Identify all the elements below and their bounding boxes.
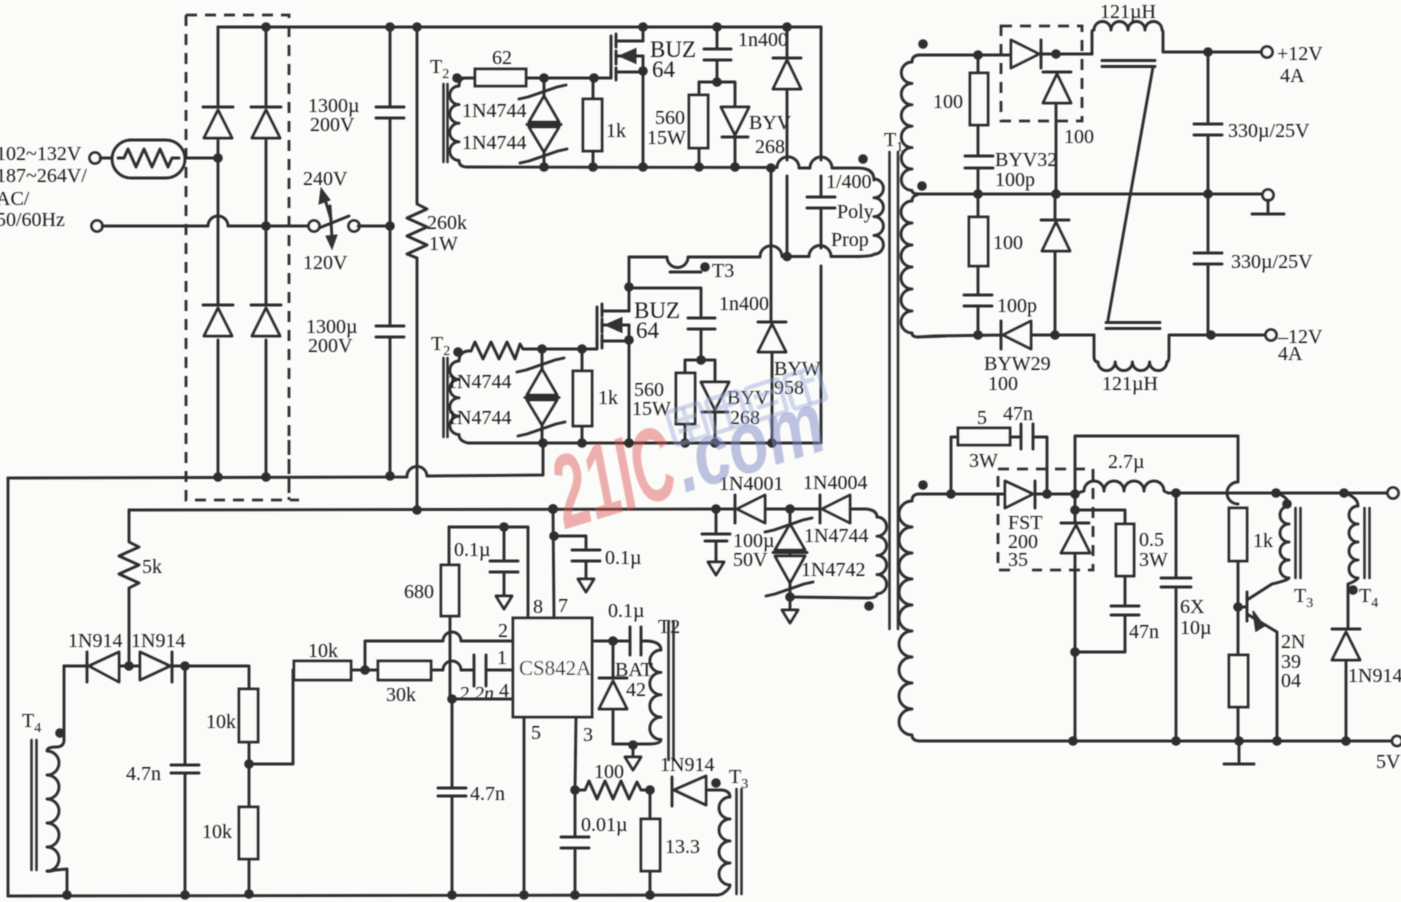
svg-text:BYV: BYV — [749, 112, 792, 134]
svg-text:1N4742: 1N4742 — [801, 559, 865, 581]
node lower rail dots — [538, 438, 777, 448]
svg-text:T3: T3 — [712, 260, 734, 282]
svg-text:T4: T4 — [22, 710, 41, 736]
wire BUZ64 lower drain up — [624, 257, 634, 311]
svg-text:0.1µ: 0.1µ — [454, 539, 491, 561]
node snubber tap dot upper — [973, 50, 983, 60]
svg-text:3W: 3W — [969, 450, 998, 472]
svg-text:T3: T3 — [729, 766, 748, 792]
svg-text:T2: T2 — [431, 333, 450, 359]
svg-text:1N914: 1N914 — [68, 630, 122, 652]
capacitor 1n400 lower — [629, 288, 769, 360]
svg-text:4.7n: 4.7n — [126, 763, 161, 785]
node dashed box BYV32 — [1001, 26, 1082, 121]
terminal 5V return output — [1376, 736, 1401, 773]
resistor 0.5 3W — [1075, 510, 1168, 606]
diode bridge lower-right — [251, 305, 281, 336]
svg-text:680: 680 — [404, 581, 434, 603]
node rectifier junction dot upper — [1051, 49, 1061, 59]
node watermark chinese glyph blocks — [666, 367, 826, 445]
node T1 primary polarity dot — [858, 154, 868, 164]
svg-text:30k: 30k — [386, 684, 416, 706]
wire 5V return rail — [920, 740, 1392, 743]
node T3 right polarity dot — [1282, 499, 1292, 509]
diode BYW29 — [935, 321, 1094, 395]
wire pin3 current sense — [570, 717, 580, 795]
svg-text:47n: 47n — [1129, 621, 1159, 643]
diode 1N914 right — [129, 630, 185, 682]
svg-text:10k: 10k — [206, 711, 236, 733]
node dashed box FST — [998, 469, 1093, 570]
resistor 560 15W lower — [632, 373, 695, 444]
svg-text:42: 42 — [626, 679, 646, 701]
terminal 5V positive output — [1388, 488, 1399, 499]
svg-text:CS842A: CS842A — [519, 656, 592, 680]
svg-text:10k: 10k — [202, 821, 232, 843]
capacitor 100p snubber lower — [964, 295, 1037, 335]
wire BUZ64 source down — [638, 56, 648, 167]
node +12V filter dot — [1203, 47, 1213, 57]
svg-text:1k: 1k — [606, 120, 626, 142]
transformer T3 sense winding — [718, 766, 748, 895]
node gate junction dots upper — [539, 73, 599, 83]
transformer T4 feedback winding right — [1344, 493, 1378, 629]
svg-text:62: 62 — [492, 47, 512, 69]
resistor 10k upper vertical — [206, 689, 258, 764]
svg-text:50V: 50V — [733, 549, 768, 571]
svg-text:200V: 200V — [308, 335, 353, 357]
svg-text:5: 5 — [531, 722, 541, 744]
transformer T2 upper drive winding — [430, 56, 467, 167]
transformer T1 12V upper secondary — [901, 55, 920, 194]
svg-text:102~132V: 102~132V — [0, 143, 82, 165]
node bridge input junction dot — [213, 153, 223, 163]
svg-text:5: 5 — [977, 407, 987, 429]
capacitor 0.1u on Vcc — [554, 536, 642, 579]
svg-text:4.7n: 4.7n — [470, 783, 505, 805]
node junction neutral to right bridge column — [261, 221, 271, 231]
svg-text:13.3: 13.3 — [665, 836, 700, 858]
svg-text:1W: 1W — [429, 233, 458, 255]
svg-text:330µ/25V: 330µ/25V — [1228, 120, 1310, 142]
svg-text:AC/: AC/ — [0, 188, 30, 210]
svg-text:0.1µ: 0.1µ — [608, 600, 645, 622]
node aux winding polarity dot — [864, 601, 874, 611]
zener pair 1N4744 upper cell — [462, 78, 567, 167]
transformer T2 drive primary — [648, 616, 680, 760]
svg-text:35: 35 — [1008, 549, 1028, 571]
resistor 100 snubber upper — [933, 55, 988, 156]
resistor gate zigzag lower — [468, 342, 542, 359]
node T4 right polarity dot — [1348, 585, 1358, 595]
capacitor 1300u 200V top — [308, 27, 404, 226]
svg-text:200V: 200V — [310, 114, 355, 136]
node upper rail dots — [539, 162, 776, 173]
resistor 13.3 — [641, 790, 700, 895]
svg-text:BAT: BAT — [615, 659, 653, 681]
wire 5V rectifier line — [919, 493, 1005, 496]
svg-text:64: 64 — [652, 57, 676, 82]
svg-text:7: 7 — [558, 595, 568, 617]
svg-text:560: 560 — [655, 107, 685, 129]
svg-text:100p: 100p — [997, 295, 1037, 317]
svg-text:1n400: 1n400 — [719, 293, 769, 315]
capacitor 0.1u on Vref — [454, 527, 518, 596]
wire damper to rail — [1074, 652, 1077, 741]
inductor 121uH upper — [1092, 1, 1262, 54]
resistor 1k feedback — [1229, 508, 1273, 607]
wire pin7 Vcc — [549, 509, 559, 618]
svg-text:8: 8 — [533, 596, 543, 618]
resistor 5k — [119, 510, 162, 666]
resistor 1k lower cell — [573, 349, 618, 444]
transformer T1 12V lower secondary — [901, 195, 918, 337]
svg-text:1N4744: 1N4744 — [447, 371, 511, 393]
svg-text:1N914: 1N914 — [660, 754, 714, 776]
capacitor 330u 25V lower — [1194, 194, 1313, 335]
wire left bridge column — [217, 27, 220, 476]
wire switch to cap midpoint — [358, 225, 390, 228]
node dashed box bridge rectifier — [186, 15, 299, 500]
svg-text:T1: T1 — [884, 129, 903, 155]
node center tap dots — [973, 189, 1213, 199]
resistor 5 3W — [951, 407, 1021, 494]
svg-text:3W: 3W — [1139, 549, 1168, 571]
transformer T1 primary winding — [858, 179, 883, 257]
terminal AC line input — [90, 153, 101, 164]
wire pin1 comp with 2.2n — [431, 655, 513, 705]
node 12V lower polarity dot — [917, 181, 927, 191]
svg-text:1N4744: 1N4744 — [462, 132, 526, 154]
node top rail dots — [261, 22, 792, 32]
node sense node dot — [645, 785, 655, 795]
diode shunt lower — [1041, 194, 1070, 335]
svg-text:10µ: 10µ — [1180, 617, 1212, 639]
diode bridge upper-right — [251, 107, 281, 138]
diode FST2035 — [1005, 481, 1075, 571]
svg-text:240V: 240V — [303, 168, 348, 190]
capacitor 0.01u — [561, 790, 628, 895]
wire bottom ground rail — [8, 895, 718, 896]
resistor 10k lower vertical — [202, 764, 258, 894]
inductor 2.7uH output — [1075, 451, 1388, 494]
node -12V rail dots — [1050, 330, 1216, 340]
svg-text:100: 100 — [933, 91, 963, 113]
svg-text:1N4744: 1N4744 — [462, 100, 526, 122]
svg-text:+12V: +12V — [1277, 43, 1323, 65]
inductor 121uH lower — [1094, 335, 1266, 395]
svg-text:121µH: 121µH — [1102, 373, 1158, 395]
wire upper cell source rail — [467, 157, 874, 180]
node RC tap dot — [946, 489, 956, 499]
wire gate node lower — [542, 340, 597, 349]
svg-text:0.1µ: 0.1µ — [605, 547, 642, 569]
svg-text:T3: T3 — [1294, 585, 1313, 611]
zener pair 1N4744 1N4742 — [765, 509, 868, 597]
svg-text:100p: 100p — [995, 169, 1035, 191]
resistor 30k — [365, 661, 431, 706]
svg-text:100: 100 — [594, 761, 624, 783]
wire -12V line left part — [918, 336, 945, 337]
diode 1N4001 — [719, 473, 820, 523]
svg-text:3: 3 — [583, 724, 593, 746]
node 5V rail dots — [1171, 488, 1349, 498]
svg-text:BYV32: BYV32 — [995, 149, 1057, 171]
node 5V return dots — [1068, 736, 1351, 746]
svg-text:15W: 15W — [647, 127, 686, 149]
svg-text:2N: 2N — [1281, 631, 1305, 653]
wire pin5 ground — [523, 717, 526, 895]
svg-text:5V: 5V — [1376, 751, 1401, 773]
capacitor 6X 10u — [1161, 493, 1212, 741]
node T2 lower polarity dot — [453, 347, 463, 357]
diode BYW958 — [758, 168, 821, 444]
svg-text:T2: T2 — [430, 56, 449, 82]
svg-text:6X: 6X — [1180, 596, 1205, 618]
node 5V winding polarity dot — [918, 480, 928, 490]
terminal ground output — [1252, 190, 1284, 215]
node FST output dots — [1042, 489, 1080, 515]
resistor emitter bias — [1229, 607, 1248, 741]
resistor 260k 1W — [407, 27, 467, 510]
capacitor 100u 50V — [702, 509, 775, 571]
svg-text:47n: 47n — [1003, 403, 1033, 425]
svg-text:2: 2 — [498, 620, 508, 642]
resistor 680 — [404, 527, 459, 699]
svg-text:Poly: Poly — [837, 201, 874, 223]
svg-text:T4: T4 — [1359, 585, 1378, 611]
node aux rectifier dot — [785, 504, 795, 514]
svg-text:10k: 10k — [308, 640, 338, 662]
capacitor 330u 25V upper — [1194, 52, 1310, 194]
terminal -12V output — [1266, 326, 1324, 365]
capacitor 1300u 200V bottom — [306, 226, 404, 475]
diode bridge lower-left — [203, 305, 233, 336]
transformer T1 core — [884, 129, 903, 629]
diode clamp upper tall — [773, 27, 801, 256]
node T2 polarity dot — [452, 73, 462, 83]
ground arrow below 0.1u Vcc — [578, 579, 594, 592]
diode BAT42 — [599, 641, 653, 744]
wire gate node upper — [544, 73, 611, 78]
wire drain loop line with T3 current transformer — [629, 246, 858, 268]
svg-text:187~264V/: 187~264V/ — [0, 165, 87, 187]
wire 12V upper output line — [920, 54, 1009, 57]
svg-text:100: 100 — [993, 232, 1023, 254]
svg-text:1N4744: 1N4744 — [447, 407, 511, 429]
node feedback node dot — [360, 665, 370, 675]
diode BYV32 shunt — [1043, 72, 1094, 194]
diode 1N4004 — [803, 472, 867, 523]
node T4 polarity dot — [55, 728, 65, 738]
diode BYV32 series — [1011, 40, 1092, 68]
svg-text:64: 64 — [636, 318, 660, 343]
svg-text:260k: 260k — [427, 212, 467, 234]
resistor 10k horizontal — [294, 640, 365, 680]
transistor BUZ64 lower MOSFET — [597, 298, 680, 348]
wire left edge bus down — [7, 478, 10, 896]
transformer T2 lower drive winding — [431, 333, 468, 443]
diode 1N914 sense — [660, 754, 722, 806]
ground arrow below T2 return — [625, 745, 641, 770]
thermistor RT — [112, 140, 185, 178]
node 12V upper polarity dot — [918, 39, 928, 49]
wire center tap ground rail — [919, 193, 1262, 196]
wire T2 primary return — [613, 740, 648, 750]
zener pair 1N4744 lower cell — [447, 349, 565, 443]
svg-text:1N4004: 1N4004 — [803, 472, 867, 494]
node coupled inductor core Z — [1102, 61, 1160, 329]
node 240V label — [303, 168, 348, 190]
wire lower cell source rail — [468, 442, 818, 445]
diode BYV268 lower — [701, 382, 770, 444]
ground symbol 5V section — [1224, 741, 1254, 764]
diode 1N914 right — [1332, 629, 1401, 741]
capacitor 4.7n mid — [438, 699, 505, 895]
node T3 sense polarity dot — [711, 778, 721, 788]
ground arrow below 0.1u Vref — [496, 596, 512, 609]
svg-text:Prop: Prop — [831, 229, 869, 251]
capacitor 0.1u drive coupling — [608, 600, 648, 655]
transformer T3 feedback winding right — [1272, 493, 1313, 611]
svg-text:1/400: 1/400 — [826, 171, 872, 193]
wire top rail — [218, 26, 821, 29]
node bottom rail dots — [62, 889, 655, 900]
svg-text:268: 268 — [755, 136, 785, 158]
wire Vcc supply line — [129, 509, 735, 510]
node AC input labels — [0, 143, 87, 231]
wire pin4 RC — [447, 694, 513, 704]
svg-text:1k: 1k — [598, 387, 618, 409]
wire divider top — [185, 666, 249, 689]
diode 1N914 left — [64, 630, 129, 682]
wire aux winding return — [785, 592, 868, 602]
capacitor 1/400 Poly Prop — [807, 27, 874, 443]
diode bridge upper-left — [203, 107, 233, 138]
node divider mid dot — [244, 759, 254, 769]
transformer T3 current sense secondary bar — [670, 271, 701, 274]
resistor 100 sense filter — [575, 761, 650, 799]
svg-text:04: 04 — [1281, 670, 1301, 692]
wire pin8 Vref — [449, 522, 528, 618]
capacitor 4.7n left — [126, 666, 199, 895]
node 120V label — [303, 252, 348, 274]
svg-text:1N914: 1N914 — [131, 630, 185, 652]
node base node dot — [1233, 602, 1243, 612]
node snubber bracket lower — [685, 355, 715, 382]
transformer T1 5V secondary — [899, 494, 920, 741]
wire thermistor to bridge node — [100, 157, 216, 160]
svg-text:4A: 4A — [1278, 343, 1303, 365]
svg-text:1n400: 1n400 — [738, 29, 788, 51]
wire BUZ64 drain to top rail — [642, 27, 645, 41]
svg-text:0.01µ: 0.01µ — [581, 814, 628, 836]
terminal +12V output — [1262, 43, 1324, 87]
node bus junction dots — [213, 471, 395, 482]
svg-text:1k: 1k — [1253, 530, 1273, 552]
op-amp U1 CS842A control IC — [497, 595, 593, 746]
transistor BUZ64 upper MOSFET — [611, 34, 696, 82]
svg-text:1: 1 — [497, 647, 507, 669]
svg-text:0.5: 0.5 — [1139, 529, 1164, 551]
node drain line to tall diode dot — [782, 252, 792, 262]
transformer T1 aux winding — [866, 509, 887, 598]
svg-text:100: 100 — [988, 373, 1018, 395]
wire feedback top line — [1075, 436, 1238, 504]
node damper node dot — [1070, 647, 1080, 657]
capacitor 47n speedup — [1003, 403, 1047, 494]
resistor 62 — [461, 47, 544, 86]
svg-text:2.2n: 2.2n — [459, 683, 494, 705]
svg-text:BYW29: BYW29 — [984, 353, 1051, 375]
node watermark 21IC.com — [538, 359, 837, 551]
switch 240V/120V selector — [309, 188, 360, 249]
wire AC neutral to switch with hop over left bridge column — [102, 216, 309, 226]
wire right bridge column — [265, 27, 268, 476]
wire pin2 feedback — [365, 632, 513, 670]
ground arrow below zeners — [782, 597, 798, 623]
wire main negative bus — [8, 444, 543, 478]
svg-text:121µH: 121µH — [1100, 1, 1156, 23]
transistor 2N3904 — [1238, 584, 1305, 741]
svg-text:100: 100 — [1064, 126, 1094, 148]
node 1N914 center dot — [124, 661, 134, 671]
node T3 polarity dot and label — [700, 260, 734, 282]
node snubber bracket upper — [699, 77, 735, 107]
resistor 100 snubber lower — [969, 194, 1023, 295]
svg-text:2.7µ: 2.7µ — [1108, 451, 1145, 473]
transformer T4 feedback winding — [22, 666, 67, 895]
svg-text:1N914: 1N914 — [1348, 665, 1401, 687]
ground arrow below 100u — [708, 562, 724, 575]
node snubber tap dot lower — [973, 330, 983, 340]
terminal AC neutral input — [92, 221, 103, 232]
svg-text:120V: 120V — [303, 252, 348, 274]
node divider top dot — [180, 661, 190, 671]
node cap midpoint dot — [385, 221, 395, 231]
wire pin6 output — [592, 636, 630, 646]
svg-text:4A: 4A — [1280, 65, 1305, 87]
diode BYV268 upper — [721, 107, 792, 167]
resistor 560 15W upper — [647, 95, 708, 167]
node gate junction dots lower — [537, 344, 587, 354]
wire BUZ64 lower source down — [624, 325, 634, 444]
svg-text:5k: 5k — [142, 556, 162, 578]
svg-text:50/60Hz: 50/60Hz — [0, 209, 65, 231]
svg-text:1N4744: 1N4744 — [804, 525, 868, 547]
wire divider mid to 10k horizontal — [249, 670, 294, 764]
resistor 1k upper cell — [583, 78, 626, 167]
svg-text:330µ/25V: 330µ/25V — [1231, 251, 1313, 273]
diode shunt 5V — [1061, 494, 1090, 652]
capacitor 100p snubber upper — [965, 149, 1057, 194]
capacitor 47n damper — [1075, 606, 1159, 652]
node Vcc line dots — [412, 504, 721, 515]
capacitor 1n400 upper — [704, 27, 788, 82]
